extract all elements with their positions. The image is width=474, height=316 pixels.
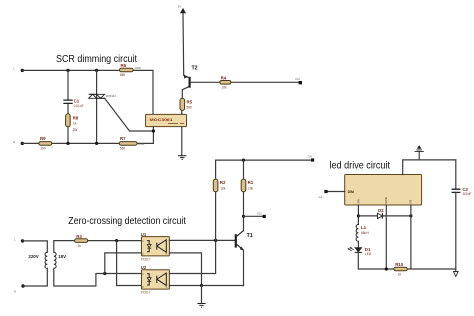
svg-text:GND: GND	[384, 197, 388, 203]
node secondary top junction	[115, 239, 118, 242]
svg-text:U2: U2	[141, 265, 147, 270]
wire T2 base to R4	[191, 81, 220, 83]
node C1 branch on L rail	[66, 69, 69, 72]
diode D2	[377, 208, 384, 219]
ground (SCR section)	[178, 156, 187, 160]
svg-text:PC817: PC817	[141, 257, 151, 261]
wire emitter rail (U2 pin3 to T1 emitter)	[169, 285, 243, 287]
node emitter rail junction	[200, 284, 203, 287]
capacitor C2	[452, 187, 472, 196]
wire R2 column	[215, 160, 217, 240]
svg-text:0.01uF: 0.01uF	[74, 104, 84, 108]
svg-text:R5: R5	[187, 100, 193, 105]
power down-arrow (negative rail)	[453, 269, 458, 276]
transformer primary winding	[28, 252, 47, 268]
svg-text:MOC3061: MOC3061	[150, 118, 173, 122]
svg-text:T2: T2	[192, 66, 198, 72]
ground (zero-crossing section)	[197, 304, 205, 308]
wire U1 pin4 to T1 base	[169, 239, 234, 241]
svg-text:R10: R10	[395, 262, 404, 267]
svg-text:10k: 10k	[222, 86, 228, 90]
wire IC FB pin down	[410, 205, 412, 269]
svg-text:10k: 10k	[248, 186, 254, 190]
svg-text:1k: 1k	[78, 244, 82, 248]
svg-text:220V: 220V	[28, 254, 38, 259]
wire IC GND pin down to bottom rail	[385, 205, 387, 269]
svg-text:100: 100	[40, 147, 46, 151]
resistor R10	[394, 262, 407, 276]
optocoupler U2	[141, 265, 170, 294]
resistor R7	[119, 136, 145, 150]
wire R3 to U1 pin1	[88, 240, 142, 242]
wire U2 pin4 up to base node	[169, 240, 215, 273]
power VCC symbol	[415, 146, 424, 160]
terminal 5V	[308, 155, 314, 162]
transformer secondary winding	[54, 252, 66, 268]
svg-text:io2: io2	[319, 195, 323, 199]
svg-text:Zero-crossing detection circui: Zero-crossing detection circuit	[68, 215, 186, 227]
svg-text:T1: T1	[247, 233, 253, 239]
terminal N (transformer primary bottom)	[14, 284, 25, 293]
wire VCC top	[403, 160, 456, 175]
resistor R1	[241, 179, 254, 192]
svg-text:R9: R9	[40, 136, 46, 141]
svg-text:R4: R4	[221, 76, 227, 81]
resistor R5	[180, 98, 193, 110]
wire primary top	[23, 241, 48, 252]
terminal IO4	[295, 77, 302, 85]
svg-text:R7: R7	[120, 136, 126, 141]
IC U4 led driver	[345, 175, 422, 206]
resistor R8	[66, 114, 79, 132]
LED D1	[348, 247, 372, 256]
svg-text:IO3: IO3	[257, 211, 262, 215]
wire C2 column bottom	[407, 192, 456, 269]
svg-text:560: 560	[120, 147, 126, 151]
wire ground drop	[201, 286, 203, 304]
wire T2 collector to 5V	[182, 14, 185, 76]
triac 2N5444	[89, 94, 117, 98]
wire D1 to bottom rail	[358, 252, 394, 269]
svg-text:IO4: IO4	[295, 77, 300, 81]
wire N rail bottom	[22, 142, 153, 144]
wire triac vertical	[96, 70, 98, 143]
optocoupler U1	[141, 232, 170, 261]
wire L rail top	[22, 70, 153, 114]
wire MOC pin4 to ground	[181, 127, 183, 156]
optocoupler MOC3061	[146, 114, 187, 126]
svg-text:R3: R3	[76, 234, 82, 239]
terminal IO3	[257, 211, 266, 218]
svg-text:R6: R6	[121, 63, 127, 68]
svg-text:U1: U1	[141, 232, 147, 237]
resistor R2	[213, 179, 226, 192]
wire D2 rail	[358, 215, 411, 217]
svg-text:18V: 18V	[58, 254, 66, 259]
capacitor C1	[63, 99, 83, 108]
resistor R3	[75, 234, 88, 248]
svg-text:560: 560	[187, 106, 193, 110]
svg-text:D2: D2	[378, 208, 384, 213]
svg-text:2W: 2W	[73, 128, 78, 132]
title: led drive circuit	[330, 160, 391, 172]
svg-text:1k: 1k	[73, 121, 77, 125]
wire U1 pin2 link	[105, 253, 142, 274]
svg-text:5V: 5V	[178, 4, 182, 8]
title: SCR dimming circuit	[56, 53, 137, 65]
svg-text:68uH: 68uH	[361, 231, 369, 235]
node D2 left junction	[357, 214, 360, 217]
power 5V arrow (SCR section)	[178, 4, 186, 13]
resistor R6	[120, 63, 142, 77]
node D2 right junction	[409, 214, 412, 217]
svg-text:DIM: DIM	[348, 190, 354, 194]
terminal L (transformer primary top)	[14, 237, 24, 242]
wire junction down to U2 pin2	[117, 241, 142, 286]
svg-text:R2: R2	[220, 180, 226, 185]
svg-text:1/2W: 1/2W	[138, 142, 145, 146]
node GND pin bottom junction	[385, 267, 388, 270]
wire MOC pin2 to gate node	[152, 127, 154, 144]
terminal io2	[319, 190, 328, 199]
svg-text:100uF: 100uF	[462, 192, 471, 196]
svg-text:PC817: PC817	[141, 291, 151, 295]
terminal N	[13, 140, 24, 145]
node R1 top junction	[242, 159, 245, 162]
inductor L1	[356, 225, 369, 242]
transistor T1	[236, 231, 253, 251]
svg-text:R8: R8	[73, 115, 79, 120]
wire DIM to io2	[326, 191, 345, 193]
transistor T2	[184, 66, 198, 88]
svg-text:5V: 5V	[308, 155, 312, 159]
wire U1 pin3 down to emitter rail	[169, 253, 201, 286]
svg-text:LED: LED	[365, 252, 372, 256]
wire R4 to IO4	[231, 81, 299, 83]
wire T1 emitter down	[243, 250, 245, 285]
svg-text:10k: 10k	[220, 186, 226, 190]
svg-text:SW: SW	[357, 199, 361, 204]
node R8 branch on N rail	[66, 142, 69, 145]
svg-text:FB: FB	[409, 200, 413, 204]
wire 5V rail	[216, 159, 313, 161]
node gate junction	[152, 129, 155, 132]
svg-text:L1: L1	[361, 225, 367, 230]
node IO3 junction	[242, 215, 245, 218]
svg-text:2N5444: 2N5444	[106, 94, 116, 98]
node triac branch on L rail	[95, 69, 98, 72]
resistor R9	[39, 136, 52, 150]
wire IC SW pin down	[357, 205, 359, 225]
svg-text:D1: D1	[365, 247, 371, 252]
svg-text:N: N	[14, 290, 16, 294]
svg-text:10: 10	[398, 272, 402, 276]
wire L1 to D1	[357, 241, 359, 247]
wire C1 branch	[67, 70, 69, 143]
wire R5 to T2 emitter	[182, 87, 188, 99]
title: Zero-crossing detection circuit	[68, 215, 186, 227]
wire R1 column	[243, 160, 245, 231]
wire MOC pin6 to R5	[181, 110, 183, 114]
svg-text:R1: R1	[248, 180, 254, 185]
resistor R4	[220, 76, 231, 90]
svg-text:N: N	[13, 140, 15, 144]
wire primary bottom	[23, 268, 47, 286]
terminal L	[14, 67, 24, 73]
wire C2 column top	[455, 160, 457, 189]
node U1 pin2 branch	[103, 272, 106, 275]
wire triac gate	[105, 98, 154, 131]
node base junction	[214, 239, 217, 242]
svg-text:1/2W: 1/2W	[134, 66, 141, 70]
wire IO3 stub	[244, 215, 264, 217]
node triac branch on N rail	[95, 142, 98, 145]
wire secondary top to R3	[54, 241, 75, 253]
wire secondary bottom	[54, 268, 142, 286]
svg-text:560: 560	[120, 73, 126, 77]
svg-text:led drive circuit: led drive circuit	[330, 160, 391, 172]
